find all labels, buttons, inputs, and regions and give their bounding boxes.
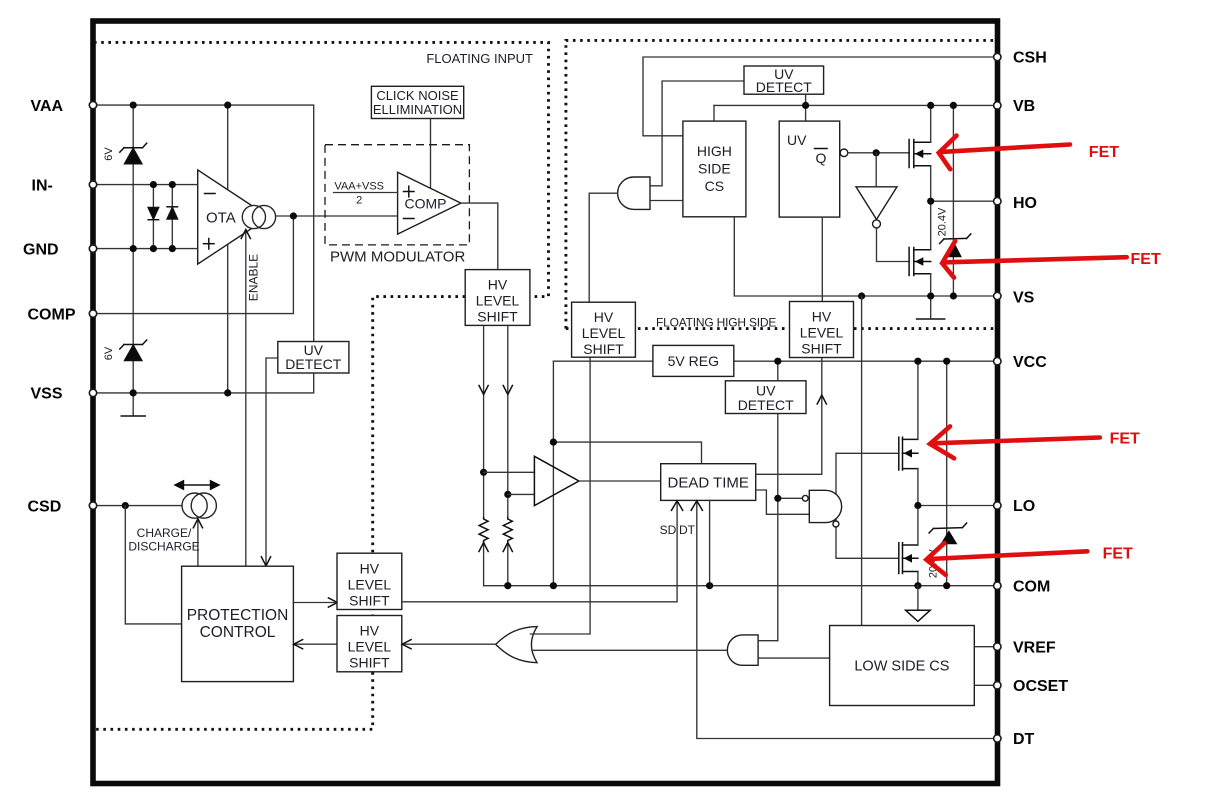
pin VB [994, 102, 1001, 109]
svg-text:COM: COM [1013, 578, 1050, 595]
wire 5V rail to dead time [553, 442, 701, 464]
svg-text:DISCHARGE: DISCHARGE [128, 540, 199, 554]
svg-text:VAA: VAA [31, 98, 64, 115]
wire Q4 drain to LO [917, 506, 919, 546]
HV LEVEL SHIFT (high side left) [572, 302, 636, 357]
svg-text:OCSET: OCSET [1013, 678, 1068, 695]
svg-text:COMP: COMP [405, 196, 447, 212]
ENABLE line with arrow [245, 231, 247, 567]
wire CSD to protection control [125, 506, 181, 624]
wire OTA output to PWM comp [276, 215, 398, 217]
wire buffer output to dead time [579, 480, 661, 482]
UV DETECT (high side) [744, 66, 824, 94]
wire PC to HV level shift (arrow right) [293, 602, 335, 604]
svg-text:HV: HV [812, 309, 832, 325]
svg-text:VCC: VCC [1013, 354, 1047, 371]
pin GND [89, 245, 96, 252]
svg-text:20.4V: 20.4V [937, 207, 949, 236]
OR gate U5 [496, 627, 537, 663]
HV LEVEL SHIFT (PC out) [337, 553, 402, 609]
pin COM [994, 582, 1001, 589]
wire and bottom input [650, 200, 683, 202]
wire OR bottom input from AND [532, 649, 726, 651]
node CSD [122, 502, 129, 509]
zener D5 20.4V bootstrap clamp [952, 105, 954, 296]
wire Q3 drain to VCC [917, 361, 919, 439]
svg-text:LO: LO [1013, 498, 1035, 515]
svg-text:DETECT: DETECT [756, 79, 812, 95]
wire VREF [974, 646, 996, 648]
current source U2 charge/discharge [182, 493, 207, 518]
svg-text:CSD: CSD [28, 498, 62, 515]
wire to inverter [875, 153, 877, 187]
node nand input [774, 495, 781, 502]
bidirectional arrow above CSD source [173, 480, 220, 491]
wire COMP feedback [96, 216, 293, 314]
node VAA+VSS/2 reference [334, 192, 398, 194]
pin VREF [994, 643, 1001, 650]
gate U4 nand driver [809, 490, 841, 522]
wire COM to ground marker [917, 586, 919, 610]
wire Q1 drain to VB [930, 105, 932, 142]
svg-text:PWM MODULATOR: PWM MODULATOR [330, 249, 465, 266]
floating input dotted region [94, 42, 549, 729]
svg-text:SHIFT: SHIFT [349, 592, 390, 608]
pin DT [994, 735, 1001, 742]
wire PWM level shift output B with down arrow [507, 325, 509, 517]
wire high side cs to VS [734, 217, 996, 296]
svg-text:ELLIMINATION: ELLIMINATION [373, 102, 462, 117]
latch U8 UV/Q [779, 121, 840, 217]
pin OCSET [994, 682, 1001, 689]
UV DETECT (low side) [725, 381, 806, 414]
svg-text:FET: FET [1110, 431, 1140, 448]
svg-text:6V: 6V [103, 147, 115, 161]
svg-text:HV: HV [360, 560, 380, 576]
pin HO [994, 198, 1001, 205]
svg-text:HV: HV [488, 277, 508, 293]
node VCC taps [774, 358, 781, 365]
ground marker (open triangle) [906, 610, 931, 621]
pin VSS [89, 389, 96, 396]
svg-text:6V: 6V [103, 346, 115, 360]
svg-text:VSS: VSS [31, 386, 63, 403]
diode D4 (up) [167, 207, 177, 219]
zener D1 6V [120, 143, 147, 164]
comparator COMP [398, 172, 461, 234]
transistor Q1 (HO high) [909, 140, 931, 168]
wire OCSET [974, 684, 996, 686]
svg-text:DT: DT [1013, 731, 1035, 748]
wire 5V reg rail down to COM [552, 361, 554, 586]
wire zener column VAA-GND-VSS [132, 105, 134, 249]
svg-text:VREF: VREF [1013, 639, 1056, 656]
HV LEVEL SHIFT (PWM) [465, 270, 530, 326]
wire VSS rail [96, 373, 314, 393]
wire Q2 source to VS [930, 274, 932, 296]
wire and top input [758, 640, 778, 642]
zener D2 6V [120, 340, 147, 361]
svg-text:VS: VS [1013, 290, 1035, 307]
wire dead time up to HV level shift (arrow up) [756, 358, 822, 475]
wire UV line vertical [777, 414, 779, 641]
wire DT input with up arrow [697, 501, 996, 739]
wire buffer input A [484, 471, 535, 473]
svg-text:COMP: COMP [28, 306, 76, 323]
svg-text:Q: Q [816, 150, 827, 166]
wire Q3 source to LO [917, 469, 919, 506]
svg-text:SHIFT: SHIFT [349, 655, 390, 671]
LOW SIDE CS block [830, 626, 975, 706]
node 5V rail tap [550, 439, 557, 446]
wire charge/discharge control with arrow [197, 520, 199, 566]
svg-text:CS: CS [705, 178, 724, 194]
HIGH SIDE CS block [683, 121, 746, 217]
wire Q1 source to HO [930, 166, 932, 202]
wire VCC rail [553, 360, 996, 362]
node VS taps [858, 292, 865, 299]
wire and output to HV level shift [589, 193, 617, 302]
wire VB to uv detect / latch [805, 94, 807, 121]
svg-text:OTA: OTA [206, 210, 236, 227]
node gate drive [873, 149, 880, 156]
resistor R2 [503, 518, 512, 543]
junction dots left section [130, 102, 137, 109]
svg-text:SD: SD [660, 523, 677, 537]
pin CSH [994, 53, 1001, 60]
svg-text:DETECT: DETECT [738, 397, 794, 413]
diode D3 (down) [148, 208, 158, 220]
wire HV level shift to PC (arrow left) [296, 643, 403, 645]
svg-text:HIGH: HIGH [697, 143, 732, 159]
svg-text:HO: HO [1013, 195, 1037, 212]
svg-text:FET: FET [1103, 546, 1133, 563]
wire latch down to HV level shift [821, 217, 823, 301]
ground stub below VS [930, 296, 932, 318]
svg-text:SHIFT: SHIFT [801, 341, 842, 357]
current source U1 output [242, 205, 265, 228]
clamp diode column pair [152, 185, 154, 249]
DEAD TIME block [661, 464, 756, 501]
wire dead time com reference [709, 500, 711, 585]
svg-text:2: 2 [356, 195, 362, 207]
wire VAA/VSS feed through op-amp column [227, 105, 229, 393]
svg-text:CLICK NOISE: CLICK NOISE [376, 88, 459, 103]
svg-text:UV: UV [787, 132, 807, 148]
svg-text:DETECT: DETECT [285, 356, 341, 372]
wire Q2 drain to HO [930, 201, 932, 250]
gate U6 and [727, 635, 758, 665]
svg-text:LEVEL: LEVEL [800, 325, 844, 341]
wire OR output arrow into HV level shift [404, 643, 496, 645]
svg-text:CHARGE/: CHARGE/ [137, 526, 192, 540]
red arrow FET 4 [926, 543, 945, 575]
node LO [914, 502, 921, 509]
CLICK NOISE ELLIMINATION block [371, 86, 463, 118]
node buffer input A [480, 469, 487, 476]
svg-text:LEVEL: LEVEL [348, 576, 392, 592]
IC outer border [93, 21, 998, 784]
wire latch output to gates [848, 152, 909, 154]
wire and bottom input from low side cs [758, 657, 830, 659]
wire gate drive bus [836, 452, 899, 454]
inverter U9 [856, 187, 897, 220]
wire VS down to low side cs [861, 296, 863, 626]
wire GND to OTA [96, 248, 198, 250]
UV DETECT (left) [278, 342, 349, 374]
svg-text:DEAD TIME: DEAD TIME [667, 474, 748, 491]
wire UV detect top left feed [650, 81, 744, 186]
op-amp OTA [198, 170, 269, 264]
svg-text:FLOATING INPUT: FLOATING INPUT [426, 51, 533, 66]
svg-text:SIDE: SIDE [698, 161, 731, 177]
HV LEVEL SHIFT (high side right) [790, 302, 854, 358]
svg-text:FET: FET [1131, 251, 1161, 268]
red arrow FET 1 [939, 136, 957, 170]
wire VB rail [714, 104, 996, 106]
svg-text:LEVEL: LEVEL [582, 325, 626, 341]
bubble latch output [840, 149, 848, 157]
PROTECTION CONTROL block [182, 566, 294, 681]
pin IN- [89, 181, 96, 188]
svg-text:LEVEL: LEVEL [476, 293, 520, 309]
svg-text:IN-: IN- [32, 177, 53, 194]
wire dead time to nand jog [756, 490, 810, 514]
gate U7 and (high side) [618, 177, 650, 209]
svg-text:CONTROL: CONTROL [200, 624, 276, 641]
floating high side dotted region [566, 40, 995, 328]
red arrow FET 3 [930, 426, 954, 458]
pin VCC [994, 358, 1001, 365]
node COM taps [504, 582, 511, 589]
PWM MODULATOR dashed box [325, 145, 469, 245]
UV detect line to protection control with arrow [266, 358, 278, 565]
svg-text:HV: HV [594, 309, 614, 325]
wire VCC to UV detect [777, 361, 779, 381]
wire Q4 source to COM [917, 572, 919, 586]
node buffer input B [504, 491, 511, 498]
wire inverter output to low gate [877, 228, 910, 262]
svg-text:ENABLE: ENABLE [247, 254, 261, 301]
svg-text:DT: DT [679, 523, 696, 537]
svg-text:PROTECTION: PROTECTION [187, 607, 289, 624]
wire COM rail [484, 585, 996, 587]
wire buffer input B [508, 493, 535, 495]
wire CSH [643, 57, 996, 136]
wire HO [931, 200, 996, 202]
pin LO [994, 502, 1001, 509]
svg-text:5V REG: 5V REG [668, 353, 719, 369]
svg-text:CSH: CSH [1013, 50, 1047, 67]
wire nand inverted input [778, 497, 802, 499]
wire comparator output to HV level shift [461, 203, 498, 270]
wire LO [918, 505, 996, 507]
pin COMP [89, 310, 96, 317]
svg-text:LOW SIDE CS: LOW SIDE CS [854, 659, 949, 675]
pin VAA [89, 101, 96, 108]
svg-text:LEVEL: LEVEL [348, 639, 392, 655]
wire CSD input [96, 505, 182, 507]
svg-text:SHIFT: SHIFT [477, 309, 518, 325]
svg-text:GND: GND [23, 241, 59, 258]
wire OR top input [531, 357, 591, 634]
red arrow FET 2 [942, 241, 955, 278]
zener D6 20.4V vcc clamp [946, 361, 948, 586]
pin CSD [89, 502, 96, 509]
wire IN- to OTA [96, 184, 198, 186]
transistor Q2 (HO low) [909, 248, 931, 276]
buffer U3 [534, 456, 579, 505]
HV LEVEL SHIFT (PC in) [337, 616, 402, 672]
svg-text:FET: FET [1089, 144, 1119, 161]
ground below VSS [132, 393, 134, 415]
wire click noise to comparator [430, 119, 432, 189]
svg-text:FLOATING HIGH SIDE: FLOATING HIGH SIDE [656, 316, 776, 330]
svg-text:VB: VB [1013, 98, 1035, 115]
svg-text:HV: HV [360, 623, 380, 639]
wire PWM level shift output A with down arrow [483, 325, 485, 517]
resistor R1 [479, 518, 488, 543]
node OTA output [290, 212, 297, 219]
svg-text:SHIFT: SHIFT [583, 341, 624, 357]
wire VAA rail [96, 105, 314, 341]
node HO [927, 198, 934, 205]
node VB taps [802, 102, 809, 109]
transistor Q3 (LO high) [899, 437, 918, 470]
5V REG block [653, 345, 734, 376]
wire VB to high side cs [713, 105, 715, 121]
svg-text:VAA+VSS: VAA+VSS [334, 181, 384, 193]
transistor Q4 (LO low) [899, 543, 918, 574]
wire SD input with up arrow [402, 501, 677, 602]
pin VS [994, 292, 1001, 299]
